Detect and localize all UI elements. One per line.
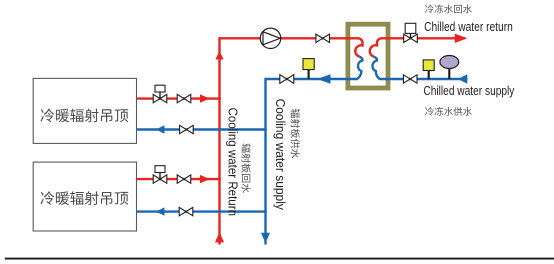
exchanger right coil, cold side (blue) (372, 57, 390, 79)
pipe: red branch 1 from box1 to main (137, 97, 221, 99)
pipe: cooling water return vertical main (red) with top run to exchanger (220, 38, 359, 244)
label blue vert (291, 109, 300, 158)
sensor T1 (yellow) on blue line left of exchanger (303, 59, 314, 79)
svg-text:Chilled water return: Chilled water return (424, 19, 513, 34)
svg-text:Chilled water supply: Chilled water supply (423, 83, 514, 98)
svg-text:Cooling water supply: Cooling water supply (273, 99, 288, 211)
pipe: blue branch 1 from box1 to blue main (137, 128, 267, 130)
box2 text (41, 191, 129, 205)
gate valve on blue branch 2 (179, 207, 193, 215)
flow arrow: red up-arrow at vertical main bottom (215, 232, 224, 242)
flow arrow: red branch 2 into main (200, 175, 210, 183)
baseline rule at page bottom (5, 258, 554, 260)
flow arrow: blue branch 2 toward box2 (156, 207, 165, 215)
box: radiant ceiling panel 2 (33, 162, 136, 231)
pipe: chilled water supply (blue, exchanger to right end) (390, 78, 467, 80)
label red vert (241, 144, 250, 193)
exchanger left coil, cold side (blue) (346, 57, 363, 79)
gate valve on red top run (316, 34, 330, 42)
heat exchanger HX1 body (348, 24, 388, 88)
flow arrow: blue down-arrow at vertical main bottom (261, 233, 270, 244)
label top (425, 4, 472, 13)
label bottom (425, 107, 472, 116)
sensor T2 (yellow) on chilled water supply (423, 60, 434, 79)
exchanger left coil, hot side (red) (355, 38, 362, 57)
flow arrow: chilled water supply (blue, left-pointing at right end) (458, 74, 468, 83)
flow arrow: red up-arrow on vertical main top (215, 51, 223, 60)
flow arrow: chilled water return (red, right end) (455, 34, 467, 43)
flow arrow: blue toward exchanger (left of HX) (317, 74, 331, 83)
flow arrow: red branch 1 into main (200, 94, 210, 102)
control valve V1 on red branch 1 (with actuator) (153, 85, 167, 103)
pipe: red branch 2 from box2 to main (137, 178, 221, 180)
control valve V2 on red branch 2 (with actuator) (153, 166, 167, 184)
flow arrow: blue branch 1 toward box1 (156, 125, 165, 133)
gate valve on blue branch 1 (180, 125, 194, 133)
exchanger right coil, hot side (red) (370, 38, 391, 57)
box: radiant ceiling panel 1 (33, 78, 136, 143)
gate valve on red branch 2 (177, 175, 191, 183)
control valve V3 on chilled water return (with actuator) (404, 23, 418, 42)
pipe: blue branch 2 from box2 to blue main (137, 210, 267, 212)
gate valve on blue line before exchanger (280, 75, 294, 84)
box1 text (41, 109, 129, 123)
pump P1 on cooling water return (260, 28, 280, 48)
svg-text:Cooling water Return: Cooling water Return (225, 108, 240, 216)
gate valve on red branch 1 (177, 94, 191, 102)
gate valve on chilled water supply (403, 75, 417, 83)
gauge G1 (purple ellipse) on chilled water supply (440, 56, 459, 80)
pipe: cooling water supply vertical main (blue) with top run to exchanger (266, 79, 346, 245)
pipe: chilled water return (red, exchanger to right arrow) (390, 37, 465, 39)
